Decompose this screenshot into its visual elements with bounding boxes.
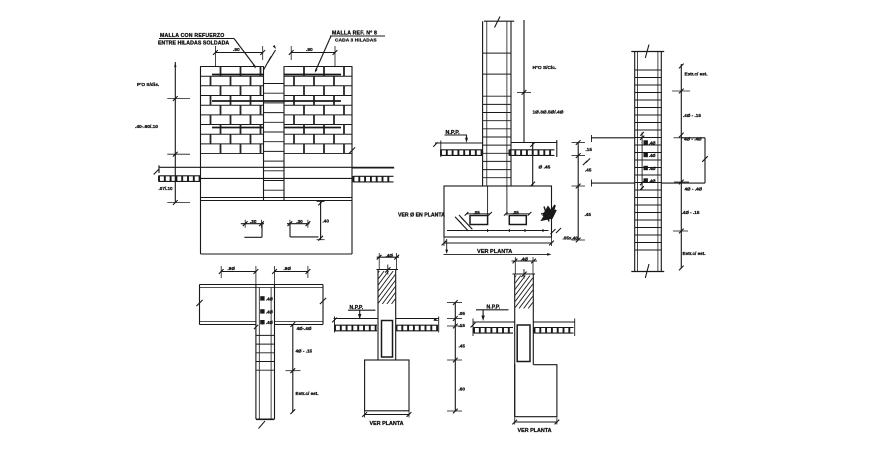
leader right callout [316, 36, 332, 71]
svg-text:.4Ø: .4Ø [386, 253, 394, 258]
footing E [365, 360, 409, 411]
break marks C [645, 45, 649, 59]
floor slab E [334, 318, 378, 320]
svg-text:4Ø - .15: 4Ø - .15 [296, 349, 313, 354]
svg-text:.45: .45 [585, 212, 592, 217]
tie column (ladder) [263, 67, 265, 201]
svg-text:.90: .90 [233, 47, 240, 53]
svg-text:.45: .45 [585, 168, 592, 173]
svg-text:.15: .15 [586, 147, 593, 152]
dim line beside column [523, 20, 525, 143]
svg-text:.07/.10: .07/.10 [159, 186, 173, 191]
stirrup right [509, 216, 526, 225]
svg-text:.4Ø: .4Ø [649, 153, 656, 158]
N.P.P. arrow F [482, 310, 484, 318]
floor slab F [473, 321, 515, 323]
stirrup dim right [506, 213, 530, 215]
top dimension .90 right [291, 52, 335, 54]
footing dim F [515, 421, 557, 423]
slab end line left [158, 165, 160, 173]
svg-text:Estr.c/ est.: Estr.c/ est. [683, 251, 706, 256]
right dim line B [577, 143, 579, 241]
vertical dim .40 [320, 202, 322, 240]
footing dim E [365, 414, 409, 416]
svg-text:.40: .40 [323, 218, 330, 223]
top dim .40 E [377, 256, 399, 258]
wall shafts C [634, 52, 636, 272]
floor slab right of column [511, 142, 557, 144]
rebar dots and .40 labels in joint [644, 141, 648, 145]
rebar cage E [382, 321, 393, 358]
bottom interior dim .30 right [287, 223, 309, 225]
double leader into footing [455, 217, 468, 231]
footing F [515, 364, 557, 417]
top dim .40 F [512, 260, 538, 262]
svg-text:.30: .30 [250, 219, 257, 224]
slab end left [440, 141, 442, 158]
N.P.P. arrow E [359, 310, 361, 316]
svg-text:Ø .45: Ø .45 [539, 165, 551, 171]
tick at brick course bottom right [349, 147, 355, 153]
horizontal joint reinforcement (mesh) lines [212, 74, 264, 76]
svg-text:.9Ø: .9Ø [228, 266, 236, 271]
break mark column top [495, 17, 501, 28]
svg-text:.4Ø: .4Ø [266, 320, 273, 325]
column top cap [484, 20, 514, 22]
footing outline [444, 186, 552, 237]
svg-text:.4Ø: .4Ø [266, 296, 273, 301]
bottom interior dim .30 left [241, 223, 264, 225]
break mark D bottom [259, 421, 266, 429]
svg-text:.9Ø: .9Ø [284, 266, 292, 271]
svg-text:.05: .05 [459, 311, 466, 316]
svg-text:.15: .15 [459, 323, 466, 328]
svg-text:4Ø - .4Ø: 4Ø - .4Ø [684, 137, 702, 142]
svg-text:Estr.c/ est.: Estr.c/ est. [685, 72, 708, 77]
footing rebar line [447, 230, 549, 232]
svg-text:VER PLANTA: VER PLANTA [518, 428, 552, 434]
beam end lines [199, 285, 201, 325]
floor slab lines through wall [159, 166, 394, 168]
dim 0-.45 depth [532, 143, 534, 187]
svg-text:.4Ø: .4Ø [649, 179, 656, 184]
left dimension line [174, 62, 176, 203]
svg-text:.4Ø: .4Ø [649, 166, 656, 171]
svg-text:ENTRE HILADAS SOLDADA: ENTRE HILADAS SOLDADA [158, 40, 229, 46]
stirrup dim left [467, 213, 491, 215]
svg-text:1Ø.3Ø.5Ø/.4Ø: 1Ø.3Ø.5Ø/.4Ø [533, 110, 564, 116]
footing bottom dim [444, 242, 552, 244]
svg-text:.4Ø - .15: .4Ø - .15 [682, 210, 700, 215]
svg-text:P'O S/dis.: P'O S/dis. [137, 82, 159, 88]
column top + center tick E [377, 269, 399, 271]
svg-text:.4Ø: .4Ø [649, 141, 656, 146]
right dim line D [292, 325, 294, 412]
hand scribble mark [542, 205, 556, 220]
svg-text:.05: .05 [474, 210, 481, 215]
rebar hook left [261, 224, 263, 238]
svg-text:4Ø - .4Ø: 4Ø - .4Ø [685, 187, 703, 192]
wall stem ladder [255, 285, 257, 420]
svg-text:.4Ø: .4Ø [266, 309, 273, 314]
svg-text:.45: .45 [459, 344, 466, 349]
column top + center tick F [513, 273, 536, 275]
svg-text:Estr.c/ est.: Estr.c/ est. [296, 391, 319, 396]
column shafts [482, 21, 484, 186]
svg-text:.60: .60 [459, 387, 466, 392]
beam bottom lines [200, 321, 256, 323]
column dowels into footing [487, 186, 489, 216]
N.P.P. arrow B [466, 135, 468, 141]
exterior floor hatch left [159, 176, 201, 182]
top dim right D [275, 271, 308, 273]
stirrup left [470, 216, 488, 225]
right dim line C [680, 64, 682, 269]
corner ticks footing B [550, 229, 555, 234]
wall end caps C [631, 51, 664, 53]
break mark at wall top center [264, 50, 276, 70]
svg-text:4Ø-.4Ø: 4Ø-.4Ø [297, 326, 312, 331]
svg-text:VER Ø EN PLANTA: VER Ø EN PLANTA [398, 213, 445, 219]
crossing wall stub left [591, 137, 635, 139]
joint vertical rebar C [641, 132, 643, 189]
brick wall right block [284, 67, 352, 154]
rebar hook right [289, 224, 291, 237]
wall outline [201, 66, 261, 68]
svg-text:.4Ø - .15: .4Ø - .15 [683, 113, 701, 118]
svg-text:.4Ø: .4Ø [521, 256, 529, 261]
floor slab left of column [435, 142, 483, 144]
svg-text:.05: .05 [513, 210, 520, 215]
footing top double line [201, 197, 353, 199]
svg-text:CADA 3 HILADAS: CADA 3 HILADAS [335, 38, 377, 44]
top dim left D [221, 271, 256, 273]
svg-text:.05x.40: .05x.40 [563, 236, 579, 241]
svg-text:VER PLANTA: VER PLANTA [370, 421, 404, 427]
svg-text:H°O S/Clc.: H°O S/Clc. [533, 65, 557, 71]
crossing wall stub right [681, 137, 705, 139]
right dim line E [454, 303, 456, 412]
brick wall left block [201, 67, 264, 154]
svg-text:.90: .90 [306, 47, 313, 53]
slab end right [556, 140, 558, 157]
leader left callout [234, 39, 256, 68]
exterior floor hatch right [352, 167, 394, 169]
top dimension .90 left [215, 52, 262, 54]
rebar dots in joint D [261, 297, 265, 301]
beam top lines [200, 284, 324, 286]
svg-text:.40-.60/.10: .40-.60/.10 [135, 124, 158, 130]
rebar cage F [517, 325, 530, 362]
svg-text:.30: .30 [296, 219, 303, 224]
